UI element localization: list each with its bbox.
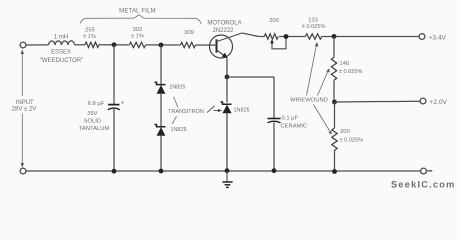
junction dot R200 on ground rail [332,169,337,174]
svg-text:SOLID: SOLID [84,118,101,124]
node B junction dot [159,43,164,48]
svg-text:CERAMIC: CERAMIC [281,124,308,130]
svg-text:+3.4V: +3.4V [429,35,447,42]
input terminal top-left [20,42,26,48]
wire node C down to R140 [333,37,335,58]
ground symbol [226,171,228,182]
svg-text:TANTALUM: TANTALUM [79,126,110,132]
wire node B down to zener D1 [160,45,162,84]
transistor Q1 2N2222 circle [210,35,233,58]
potentiometer 200 body [264,34,278,39]
svg-text:6.8 µF: 6.8 µF [88,101,105,107]
wire D2 to ground rail [160,136,162,171]
svg-text:200: 200 [269,18,279,24]
svg-text:+2.0V: +2.0V [430,99,448,106]
zener diode D3 1N825 [221,102,232,104]
wire inductor to R 255 [75,44,86,46]
svg-text:± 0.025%: ± 0.025% [302,24,326,30]
wire node E to C2 branch [227,76,274,78]
junction dot C2 on ground rail [272,168,277,173]
resistor 133 wirewound [305,34,321,39]
wire C2 to ground rail [273,123,275,172]
wire C1 bottom to ground rail [113,109,115,171]
svg-text:140: 140 [340,61,350,67]
pot wiper wire shorted to output side [272,38,286,49]
svg-text:MOTOROLA: MOTOROLA [207,20,241,26]
inductor L1 1 mH [49,41,75,45]
wire pot to R133 [279,36,305,38]
brace over metal film resistors [81,15,202,24]
resistor 302 metal film [129,42,145,47]
wire R302 to R309 [146,44,181,46]
Q1 base bar [216,39,218,52]
wire D1 to D2 [160,94,162,127]
collector rail to potentiometer [242,33,264,37]
svg-text:2N2222: 2N2222 [212,28,234,34]
svg-text:1N825: 1N825 [169,85,185,91]
wire C2 branch down to capacitor [273,77,275,118]
wire R133 to +3.4V terminal [322,36,420,38]
leader TRANSITRON to D1 label [174,97,179,108]
svg-text:TRANSITRON: TRANSITRON [168,109,204,115]
resistor 255 metal film [85,42,99,47]
svg-text:1N825: 1N825 [234,108,250,114]
wire top rail from input terminal to inductor [26,44,49,46]
zener diode D2 1N825 [155,125,166,127]
+2.0V terminal [420,98,426,104]
Q1 emitter lead with arrow [217,50,226,57]
output common terminal bottom-right [421,168,427,174]
svg-text:255: 255 [85,28,95,34]
leader TRANSITRON to D2 label [172,117,177,125]
svg-text:302: 302 [133,27,143,33]
pot wiper arrow [270,39,274,43]
wire D3 to ground rail [226,113,228,171]
svg-text:± 1%: ± 1% [131,34,144,40]
Q1 collector lead [217,33,242,42]
svg-text:200: 200 [340,129,350,135]
svg-text:133: 133 [308,18,318,24]
svg-text:35V: 35V [87,111,97,117]
wire R200 to ground rail [334,150,336,171]
node E junction dot [225,75,230,80]
node D junction dot [332,100,337,105]
leader arrow TRANSITRON to D3 [207,106,219,113]
wire node D down to R200 [334,102,336,128]
wire R140 to node D [333,80,335,102]
leader WIREWOUND to R140 [318,71,329,96]
svg-text:± 0.025%: ± 0.025% [339,69,363,75]
resistor 140 wirewound [331,57,336,80]
capacitor C1 6.8uF solid tantalum [108,104,120,106]
junction dot pot output [284,34,289,39]
svg-text:WIREWOUND: WIREWOUND [290,97,328,103]
zener diode D1 1N825 [155,82,166,84]
svg-text:0.1 µF: 0.1 µF [282,116,299,122]
leader WIREWOUND to R200 [314,105,331,132]
svg-text:1 mH: 1 mH [54,35,68,41]
node C junction dot [332,34,337,39]
wire node E down to zener D3 [226,77,228,103]
wire R255 to R302 [99,44,129,46]
input terminal bottom-left [20,168,26,174]
input span arrow upper [21,53,23,97]
svg-text:± 0.025%: ± 0.025% [340,137,364,143]
wire emitter down to node E [226,58,228,77]
node A junction dot [112,42,117,47]
wire R309 to base of Q1 [196,44,217,46]
svg-text:28V ± 2V: 28V ± 2V [12,107,37,113]
svg-text:SeekIC.com: SeekIC.com [391,179,456,189]
leader WIREWOUND to R133 [307,45,317,96]
junction dot C1 on ground rail [112,169,117,174]
svg-text:INPUT: INPUT [16,100,34,106]
input span arrow lower [21,114,23,166]
svg-text:+: + [121,101,125,107]
bottom ground rail [26,170,421,172]
svg-text:1N825: 1N825 [170,127,186,133]
junction dot D2 on ground rail [159,169,164,174]
capacitor C2 0.1uF ceramic [268,118,281,120]
svg-text:ESSEX: ESSEX [51,49,71,55]
svg-text:"WEEDUCTOR": "WEEDUCTOR" [40,58,83,64]
svg-text:METAL FILM: METAL FILM [119,9,156,15]
resistor 309 metal film [180,42,195,47]
wire node D to +2.0V terminal [335,100,421,103]
wire node A down to capacitor C1 [113,45,115,104]
svg-text:± 1%: ± 1% [83,34,96,40]
svg-text:309: 309 [184,30,194,36]
junction dot D3 on ground rail [225,168,230,173]
+3.4V terminal [419,34,425,40]
resistor 200 wirewound [332,128,337,150]
stub after bottom-right terminal [427,170,432,172]
